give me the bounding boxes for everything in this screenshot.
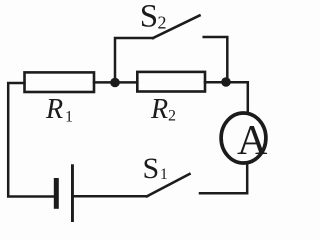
svg-text:1: 1: [65, 108, 73, 125]
wire battery to switch S1 pivot: [74, 195, 147, 198]
wire node B to ammeter top lead: [226, 82, 248, 112]
node A junction dot: [110, 78, 120, 88]
wire S2 branch left riser: [115, 38, 153, 82]
svg-text:1: 1: [160, 166, 168, 183]
battery cell: thin long plate (positive): [71, 164, 74, 222]
switch S2 blade: [153, 16, 200, 39]
svg-text:R: R: [45, 94, 63, 125]
node B junction dot: [221, 77, 231, 87]
svg-text:S: S: [143, 152, 160, 185]
ammeter U1 circle: [221, 113, 266, 163]
battery cell: thick short plate (negative): [54, 178, 59, 209]
wire S1 fixed contact to ammeter bottom lead: [200, 163, 247, 193]
resistor R2: [137, 72, 205, 92]
wire left branch: left vertical + top horizontal to R1: [8, 83, 54, 197]
svg-text:A: A: [237, 117, 268, 164]
svg-text:2: 2: [158, 13, 167, 33]
svg-text:R: R: [150, 94, 168, 125]
svg-text:2: 2: [168, 108, 176, 125]
wire node A to R2: [115, 81, 137, 84]
svg-text:S: S: [140, 0, 158, 35]
wire R1 to node A: [94, 81, 115, 84]
resistor R1: [25, 72, 95, 92]
switch S1 blade: [147, 174, 190, 196]
wire S2 fixed contact to node B: [204, 37, 228, 80]
wire R2 to node B: [205, 81, 226, 84]
